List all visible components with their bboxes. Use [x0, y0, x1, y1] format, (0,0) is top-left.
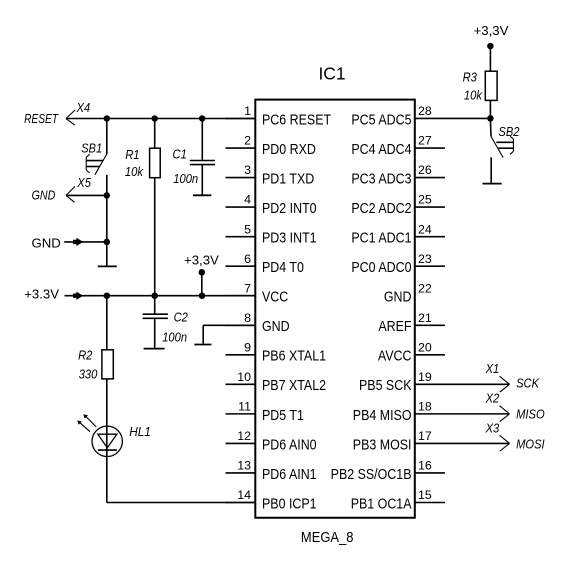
svg-text:R2: R2	[78, 348, 93, 363]
svg-text:PC4 ADC4: PC4 ADC4	[351, 141, 412, 157]
svg-text:14: 14	[237, 488, 251, 502]
svg-text:PB0 ICP1: PB0 ICP1	[262, 496, 317, 512]
svg-text:330: 330	[79, 367, 98, 382]
svg-text:21: 21	[418, 311, 432, 325]
svg-text:MEGA_8: MEGA_8	[301, 529, 354, 545]
svg-text:5: 5	[244, 222, 251, 236]
svg-text:12: 12	[237, 429, 251, 443]
svg-text:28: 28	[418, 104, 432, 118]
svg-text:2: 2	[244, 134, 251, 148]
svg-text:SB1: SB1	[81, 141, 102, 156]
svg-text:X2: X2	[485, 391, 500, 406]
svg-text:X5: X5	[76, 176, 91, 191]
svg-text:25: 25	[418, 193, 432, 207]
svg-text:X3: X3	[485, 421, 500, 436]
svg-text:100n: 100n	[162, 330, 187, 345]
svg-text:19: 19	[418, 370, 432, 384]
svg-text:10k: 10k	[125, 164, 144, 179]
svg-text:X1: X1	[485, 361, 500, 376]
svg-text:6: 6	[244, 252, 251, 266]
svg-text:PB5 SCK: PB5 SCK	[359, 377, 412, 393]
svg-text:PB1 OC1A: PB1 OC1A	[351, 496, 412, 512]
svg-text:4: 4	[244, 193, 251, 207]
svg-text:13: 13	[237, 459, 251, 473]
svg-text:PB6 XTAL1: PB6 XTAL1	[262, 348, 326, 364]
svg-text:3: 3	[244, 163, 251, 177]
svg-text:PC2 ADC2: PC2 ADC2	[351, 200, 411, 216]
svg-text:VCC: VCC	[262, 289, 289, 305]
svg-text:GND: GND	[384, 289, 412, 305]
svg-text:MOSI: MOSI	[516, 437, 545, 452]
svg-text:AREF: AREF	[378, 318, 411, 334]
svg-text:PB4 MISO: PB4 MISO	[353, 407, 412, 423]
svg-text:22: 22	[418, 281, 432, 295]
svg-text:C2: C2	[174, 310, 189, 325]
svg-text:9: 9	[244, 340, 251, 354]
svg-text:18: 18	[418, 399, 432, 413]
svg-text:PD4 T0: PD4 T0	[262, 259, 304, 275]
svg-text:PD6 AIN1: PD6 AIN1	[262, 466, 317, 482]
svg-text:GND: GND	[32, 236, 61, 251]
svg-text:1: 1	[244, 104, 251, 118]
svg-text:X4: X4	[76, 100, 91, 115]
svg-text:17: 17	[418, 429, 432, 443]
svg-text:11: 11	[238, 399, 251, 413]
svg-text:PC0 ADC0: PC0 ADC0	[351, 259, 411, 275]
svg-text:PB2 SS/OC1B: PB2 SS/OC1B	[331, 466, 412, 482]
svg-text:100n: 100n	[173, 171, 198, 186]
svg-text:20: 20	[418, 340, 432, 354]
svg-text:R3: R3	[463, 70, 478, 85]
svg-text:R1: R1	[125, 148, 139, 163]
svg-text:PB7 XTAL2: PB7 XTAL2	[262, 377, 326, 393]
svg-text:23: 23	[418, 252, 432, 266]
svg-text:27: 27	[418, 134, 432, 148]
svg-text:PD0 RXD: PD0 RXD	[262, 141, 316, 157]
svg-text:C1: C1	[173, 147, 187, 162]
svg-text:10k: 10k	[464, 88, 483, 103]
svg-text:PC3 ADC3: PC3 ADC3	[351, 171, 411, 187]
svg-text:MISO: MISO	[516, 407, 545, 422]
svg-text:PD2 INT0: PD2 INT0	[262, 200, 317, 216]
svg-text:PD1 TXD: PD1 TXD	[262, 171, 315, 187]
svg-text:+3.3V: +3.3V	[24, 287, 59, 302]
svg-text:8: 8	[244, 311, 251, 325]
svg-text:16: 16	[418, 459, 432, 473]
svg-text:7: 7	[244, 281, 251, 295]
svg-text:24: 24	[418, 222, 432, 236]
svg-text:10: 10	[237, 370, 251, 384]
svg-text:PC1 ADC1: PC1 ADC1	[351, 230, 411, 246]
svg-text:GND: GND	[262, 318, 290, 334]
svg-text:+3,3V: +3,3V	[184, 253, 219, 268]
svg-text:IC1: IC1	[318, 63, 345, 83]
svg-text:PD5 T1: PD5 T1	[262, 407, 304, 423]
svg-text:PD6 AIN0: PD6 AIN0	[262, 437, 317, 453]
svg-text:RESET: RESET	[24, 113, 59, 126]
svg-text:PD3 INT1: PD3 INT1	[262, 230, 317, 246]
svg-text:AVCC: AVCC	[378, 348, 412, 364]
svg-text:GND: GND	[32, 188, 56, 202]
svg-text:15: 15	[418, 488, 432, 502]
svg-text:SCK: SCK	[516, 376, 540, 391]
svg-text:SB2: SB2	[498, 124, 519, 139]
svg-text:PC6 RESET: PC6 RESET	[262, 112, 331, 128]
svg-text:PB3 MOSI: PB3 MOSI	[353, 437, 412, 453]
svg-text:PC5 ADC5: PC5 ADC5	[351, 112, 411, 128]
svg-text:HL1: HL1	[129, 425, 151, 439]
svg-text:26: 26	[418, 163, 432, 177]
svg-text:+3,3V: +3,3V	[474, 23, 509, 38]
